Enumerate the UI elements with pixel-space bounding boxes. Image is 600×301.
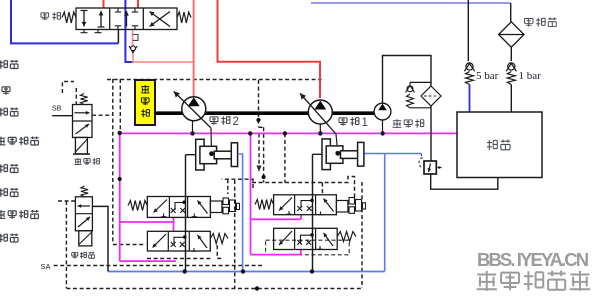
junction dots blue header [241,269,245,273]
svg-text:BBS. IYEYA.CN: BBS. IYEYA.CN [477,249,589,270]
pump2 upper regulator valve [147,197,210,218]
check valve under swing valve [129,46,137,53]
blue pump1 servo line [363,153,421,155]
oil source box 油源 [457,112,542,178]
dashed spring drain pump2 [217,245,223,258]
dashed pilot line left B [119,79,121,131]
filter to valve line [430,106,432,161]
control pump triangle [378,104,387,111]
pump2 servo actuator [196,139,204,170]
SA output wire [92,206,108,271]
blue servo drain bottom header [108,271,385,273]
blue drain 5bar to tank box [469,85,471,113]
dashed bottom pump2 valve [147,258,213,260]
blue pilot wire top-left [11,0,118,43]
SA valve spring top [81,186,88,197]
label 主泵2 [210,117,218,125]
left signal labels [0,60,7,68]
label 泵倾角 [72,253,78,259]
pump1 upper regulator valve [274,195,337,215]
return line from oil box [431,174,498,189]
dashed pilot into pump1 valve [321,183,323,195]
dashed enclosure top edge [107,79,322,81]
engine block 发动机 [135,80,155,125]
pump1 upper valve positioner stack [336,201,348,213]
pink wire check to pump2 feed [133,54,194,63]
swing valve left spring [62,12,76,23]
SB proportional solenoid [75,137,87,154]
dashed box pump1 right edge [361,182,363,288]
pump1 upper valve spring [255,200,274,210]
watermark 爱液压论坛 [477,271,497,291]
swing valve crossed position [150,12,171,27]
pump2 upper valve positioner stack [210,201,222,213]
SA valve body [75,197,92,231]
dashed pilot pump2 down [258,80,260,127]
red pump1 pressure line [218,0,321,98]
dashed pilot pump1 tap A [263,127,265,182]
5 bar check valve [466,63,473,70]
dashed pilot pump2 horizontal [222,179,254,194]
magenta pump2 regulator feed vertical [119,131,121,261]
swing valve right spring [177,12,191,23]
SB valve spring top [80,94,87,105]
label 主泵1 [339,118,347,126]
orifice fitting under swing valve [133,35,138,41]
pump1 variable arrow [300,93,336,134]
blue pump1 servo drop [384,154,386,272]
SA proportional solenoid [79,231,92,246]
cooler to 1bar check [510,47,512,61]
blue wire through swing valve [125,0,133,62]
swing valve port marks [97,30,99,33]
pump1 servo actuator [322,139,330,170]
label 回转 [41,13,49,20]
suction junction dots [190,131,194,135]
pump1 lower regulator valve [274,228,338,249]
control pump discharge [383,56,432,104]
swing valve left position arrows [83,11,85,27]
suction line (magenta) to oil source [120,132,457,134]
cooler 冷却器 [499,22,524,47]
dashed SA box top edge [58,200,75,202]
red pilot stub A into swing valve [103,0,105,9]
svg-text:SB: SB [52,106,62,113]
pump2 swash link [210,128,213,154]
dashed divider pump2 box right [234,180,236,288]
pump1 outlet triangle [314,101,326,110]
SB valve body [73,105,93,138]
pressure filter diamond [421,86,441,106]
red pump2 pressure line [193,0,195,98]
cooler drop wire [510,3,512,22]
svg-text:1: 1 [362,117,368,129]
swing valve centre position [126,11,128,27]
dashed line SB valve output [92,114,113,116]
swing valve 回转 body [76,8,177,30]
blue pump2 servo line [239,154,243,272]
relief valve body [424,161,436,174]
magenta pump1 regulator feed vertical [250,133,252,254]
pump1 swash link [336,134,338,153]
bypass check valve [410,82,431,107]
svg-text:5 bar: 5 bar [476,70,499,82]
dashed pilot line to SB valve [75,88,77,104]
dashed box pump1 lower valve [266,240,350,255]
pump2 outlet triangle [188,97,200,106]
dashed pilot pump1 tap B [284,133,286,182]
main pump 1 circle [308,100,332,124]
svg-text:1 bar: 1 bar [519,70,542,82]
control pump suction stub [382,120,384,134]
magenta bottom branch pump2 [120,260,176,262]
pump2 upper valve spring [128,201,147,211]
pump2 actuator feedback link [186,155,196,272]
magenta branch to pump1 upper valve [251,215,302,220]
pump2 variable arrow [174,91,211,128]
pump1 actuator feedback link [313,154,323,271]
drive shaft [155,111,374,115]
magenta branch to pump2 valves [120,217,174,231]
pump1 lower valve spring right [337,232,356,242]
pump1 suction stub [319,124,321,134]
label 控制泵 [393,119,402,128]
pump2 lower valve spring right [210,234,228,244]
pink wire swing valve to check [132,30,134,46]
dashed SB box fragment [62,82,74,94]
dashed box left edge (SA group) [65,201,67,288]
dashed SA signal line [54,265,262,267]
SB input wire [52,115,72,117]
svg-text:2: 2 [233,116,239,128]
red pilot stub B into swing valve [137,0,139,9]
relief valve pilot dashes [419,158,422,168]
magenta branch to pump1 lower valve [251,250,301,255]
dashed pilot pump1 horizontal [252,177,355,199]
dashed jog to pump2 valve [113,244,146,246]
main pump 2 circle [182,97,206,121]
pump2 lower regulator valve [147,231,210,251]
dashed enclosure bottom edge [66,288,362,290]
black tank wire from swing valve [117,30,119,44]
control pump circle [374,103,391,120]
svg-text:SA: SA [41,262,51,271]
1 bar check valve [508,63,515,70]
label 泵流量 [74,158,81,165]
pump2 suction stub [192,120,194,133]
5bar line from top [467,0,469,61]
blue return header (top) [311,2,511,4]
dashed pilot line left A (long) [112,79,114,244]
